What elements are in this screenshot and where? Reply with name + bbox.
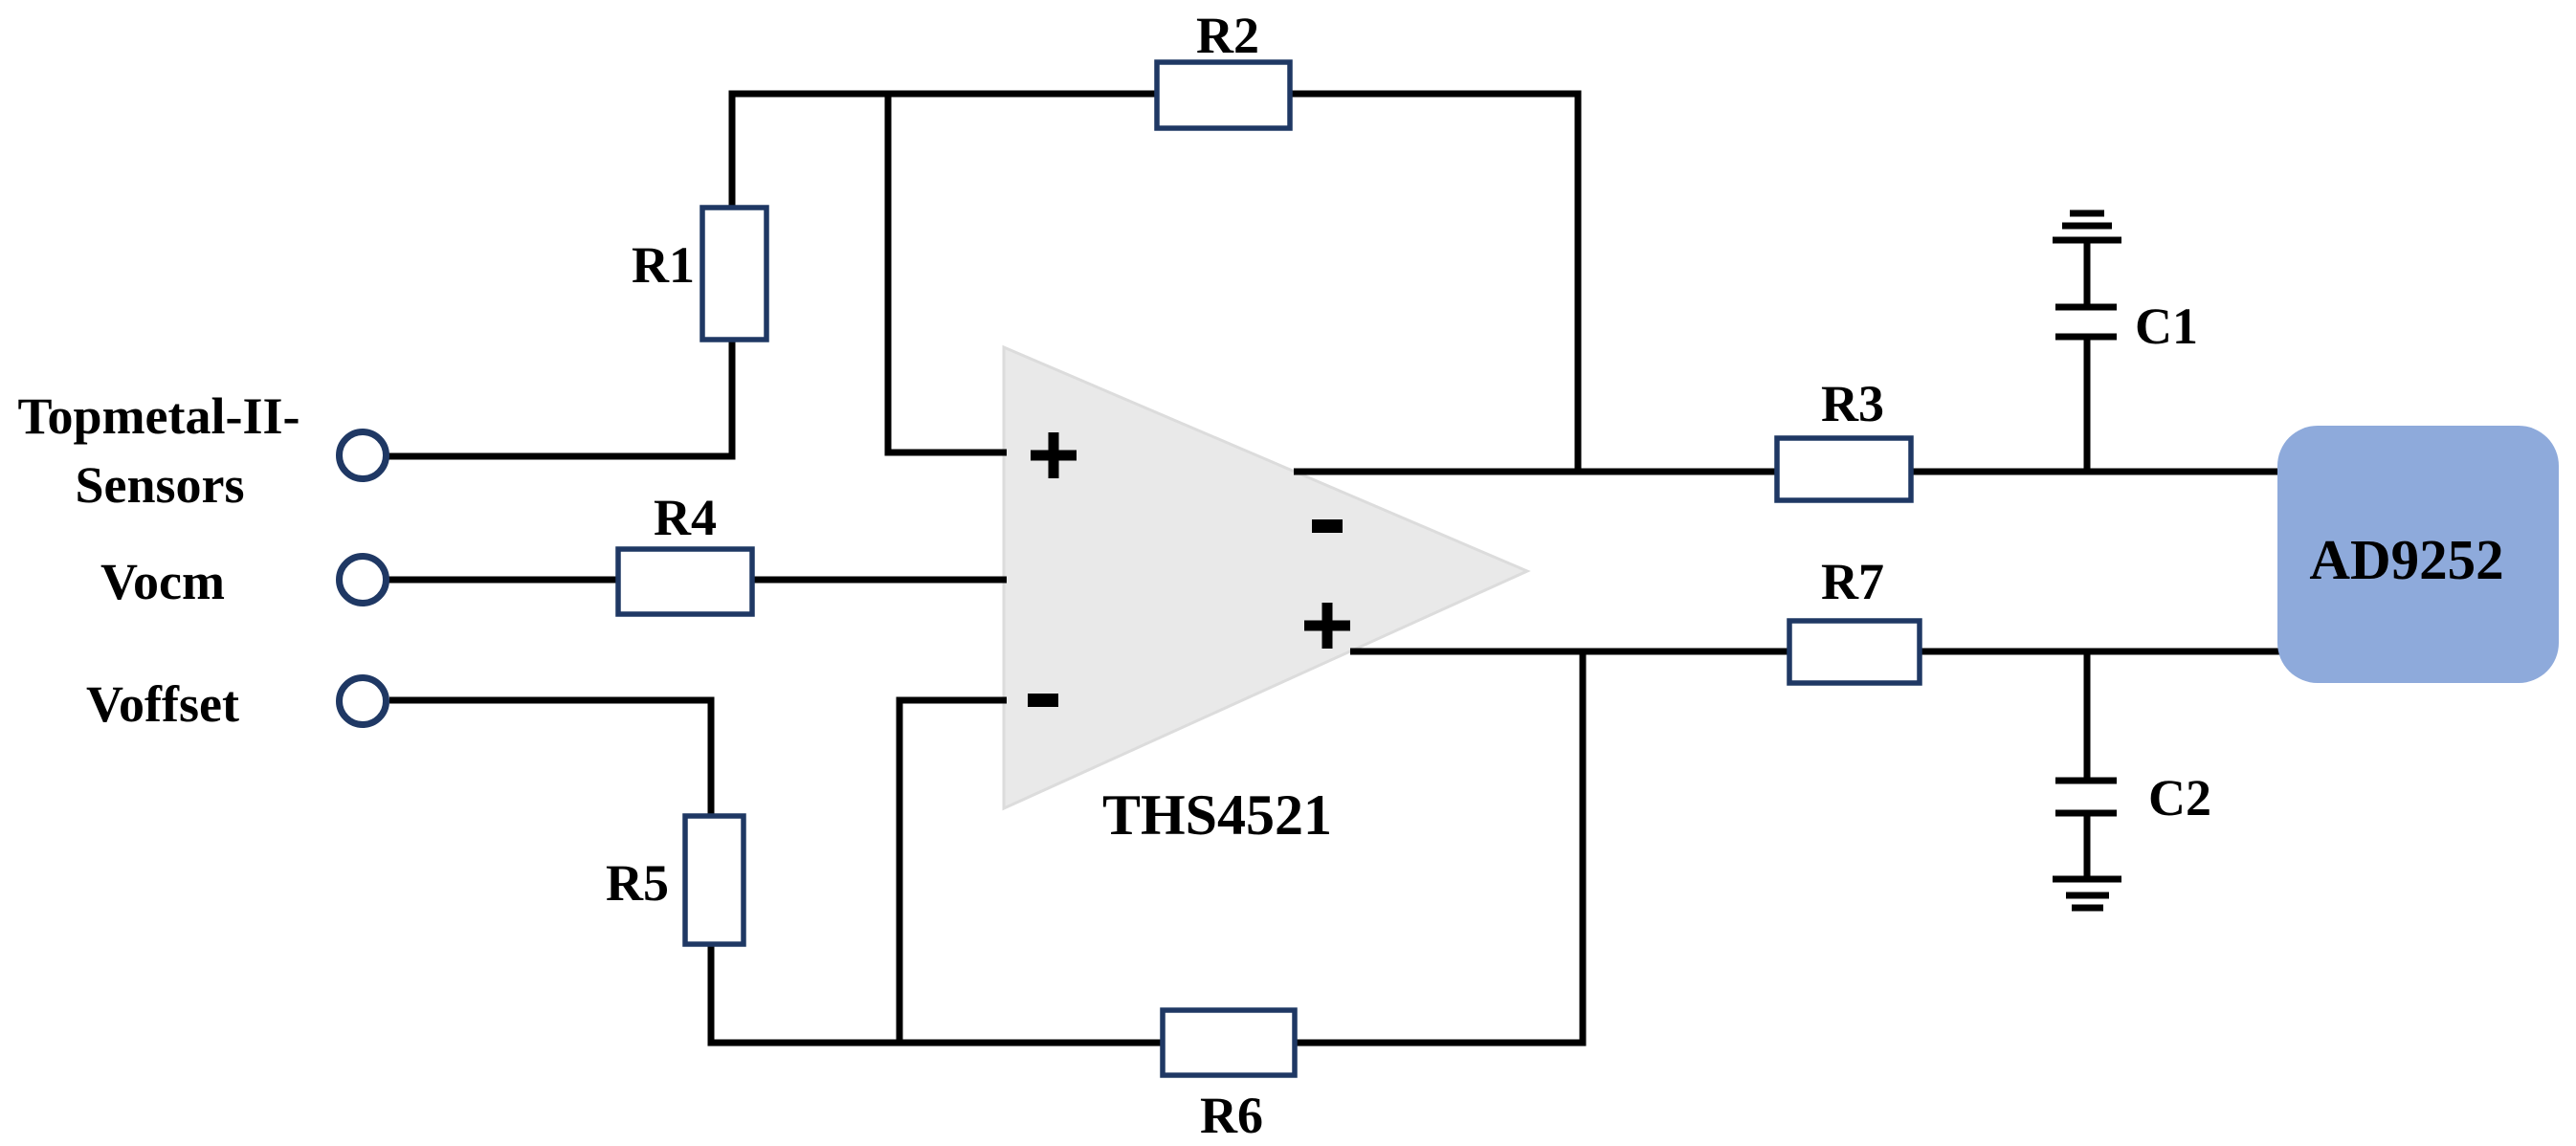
svg-text:C1: C1 (2135, 298, 2198, 355)
svg-text:C2: C2 (2148, 769, 2211, 826)
wire: R5 bottom to bottom rail to R6-right vertical up to +out node (711, 649, 1583, 1043)
wire: -out to R3 to AD9252 (1294, 469, 2280, 475)
resistor R2 (1157, 62, 1290, 128)
svg-text:R2: R2 (1196, 7, 1259, 64)
op-amp +in mark (1031, 432, 1077, 478)
svg-text:AD9252: AD9252 (2309, 528, 2503, 591)
wire: Vocm terminal through R4 to op-amp (387, 577, 1007, 584)
label R4 (654, 489, 717, 546)
svg-text:R3: R3 (1821, 375, 1884, 432)
label C2 (2148, 769, 2211, 826)
node terminal: Vocm input (340, 557, 387, 604)
wire: Topmetal-II-Sensors terminal to R1 bottom (387, 337, 732, 456)
capacitor C1 stem and plates (2055, 240, 2117, 474)
resistor R5 (685, 816, 744, 944)
label THS4521 (1102, 783, 1332, 847)
op-amp U1 THS4521 triangle body (1004, 347, 1527, 808)
resistor R4 (618, 549, 752, 614)
label Voffset (86, 675, 239, 733)
svg-text:Sensors: Sensors (75, 456, 244, 514)
label Topmetal-II-Sensors (17, 387, 300, 514)
svg-text:R1: R1 (632, 236, 695, 294)
resistor R3 (1777, 438, 1911, 500)
op-amp +out mark (1304, 603, 1350, 649)
resistor R7 (1789, 621, 1920, 683)
label R5 (606, 854, 669, 912)
svg-text:R7: R7 (1821, 553, 1884, 610)
resistor R1 (702, 208, 766, 340)
svg-text:Vocm: Vocm (100, 553, 225, 610)
wire: R1 top to top rail to R2-right vertical down to -out node (732, 94, 1578, 474)
svg-text:Topmetal-II-: Topmetal-II- (17, 387, 300, 445)
wire: -in vertical from bottom rail and horizontal into op-amp (899, 700, 1007, 1043)
wire: Voffset terminal down to R5 top (389, 700, 711, 819)
svg-text:Voffset: Voffset (86, 675, 239, 733)
op-amp -out mark (1312, 519, 1343, 533)
label R7 (1821, 553, 1884, 610)
resistor R6 (1163, 1010, 1295, 1075)
label Vocm (100, 553, 225, 610)
ADC block AD9252 (2277, 426, 2559, 683)
svg-text:R6: R6 (1200, 1087, 1263, 1144)
node terminal: Voffset input (340, 678, 387, 725)
svg-text:R5: R5 (606, 854, 669, 912)
capacitor C2 stem and plates (2055, 649, 2117, 878)
label C1 (2135, 298, 2198, 355)
op-amp -in mark (1028, 694, 1058, 707)
wire: +out to R7 to AD9252 (1350, 649, 2280, 655)
ground (top, above C1) (2053, 213, 2121, 240)
label R3 (1821, 375, 1884, 432)
svg-text:THS4521: THS4521 (1102, 783, 1332, 847)
wire: +in vertical from top rail and horizontal into op-amp (888, 91, 1007, 452)
label R2 (1196, 7, 1259, 64)
ground (bottom, below C2) (2053, 879, 2121, 908)
label R1 (632, 236, 695, 294)
node terminal: Topmetal-II-Sensors input (340, 432, 387, 479)
label R6 (1200, 1087, 1263, 1144)
svg-text:R4: R4 (654, 489, 717, 546)
